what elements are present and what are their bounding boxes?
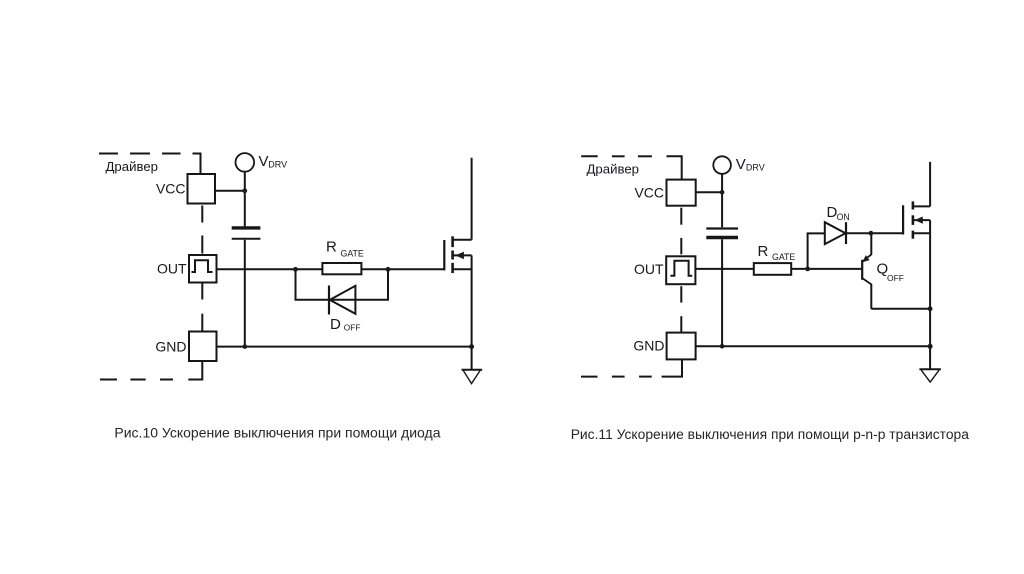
svg-text:D: D <box>330 316 341 333</box>
node: left of R_GATE (fig.10) <box>293 267 298 272</box>
wire: diode to MOSFET gate (fig.11) <box>846 232 903 234</box>
capacitor (fig.10) <box>232 228 261 239</box>
wire: VCC pin to VDRV line (fig.11) <box>696 191 722 193</box>
svg-text:R: R <box>326 238 337 255</box>
capacitor (fig.11) <box>706 229 738 238</box>
svg-text:GATE: GATE <box>341 249 364 259</box>
OUT pin box with pulse symbol (fig.10) <box>189 255 217 283</box>
svg-text:Драйвер: Драйвер <box>587 162 640 177</box>
label V_DRV (fig.11) <box>736 156 765 173</box>
MOSFET (fig.10) <box>444 158 471 347</box>
MOSFET (fig.11) <box>903 162 930 346</box>
resistor R_GATE (fig.10) <box>322 263 361 274</box>
svg-text:DRV: DRV <box>268 160 287 170</box>
node: VCC/VDRV junction (fig.11) <box>720 190 725 195</box>
node B at gate (fig.11) <box>869 231 874 236</box>
VCC pin box (fig.11) <box>667 180 696 206</box>
svg-text:ON: ON <box>837 212 850 222</box>
svg-text:OUT: OUT <box>157 261 187 277</box>
node: VCC/VDRV junction (fig.10) <box>242 188 247 193</box>
wire: VCC pin to VDRV line (fig.10) <box>215 190 245 192</box>
transistor Q_OFF (pnp) (fig.11) <box>862 233 872 309</box>
node: source/ground junction (fig.10) <box>469 344 474 349</box>
svg-text:Рис.10 Ускорение выключения пр: Рис.10 Ускорение выключения при помощи д… <box>114 425 440 441</box>
ground symbol (fig.10) <box>462 347 483 384</box>
node: cap/ground junction (fig.10) <box>243 344 248 349</box>
svg-text:R: R <box>758 243 769 260</box>
svg-text:GATE: GATE <box>772 252 795 262</box>
wire: OUT to node A (fig.11) <box>695 268 861 270</box>
resistor R_GATE (fig.11) <box>754 263 791 275</box>
label D_OFF (fig.10) <box>330 316 360 333</box>
node: cap/ground junction (fig.11) <box>720 344 725 349</box>
wire: VDRV vertical upper (fig.10) <box>244 172 246 227</box>
driver block dashed outline (fig.10) <box>99 154 202 380</box>
GND pin box (fig.11) <box>667 333 696 360</box>
node: collector/source junction (fig.11) <box>928 306 933 311</box>
wire: capacitor to ground rail (fig.11) <box>721 239 723 346</box>
svg-text:OFF: OFF <box>887 273 904 283</box>
wire: node A up to diode level (fig.11) <box>808 233 825 269</box>
GND pin box (fig.10) <box>189 332 217 362</box>
VCC pin box (fig.10) <box>188 174 216 204</box>
svg-text:V: V <box>259 153 269 170</box>
wire: VDRV vertical upper (fig.11) <box>721 174 723 227</box>
node: right of R_GATE (fig.10) <box>386 267 391 272</box>
wire: capacitor to ground rail (fig.10) <box>244 240 246 347</box>
voltage source V_DRV circle (fig.10) <box>236 153 255 172</box>
svg-text:DRV: DRV <box>746 163 765 173</box>
node A after R_GATE (fig.11) <box>805 267 810 272</box>
label R_GATE (fig.11) <box>758 243 796 262</box>
voltage source V_DRV circle (fig.11) <box>713 156 731 174</box>
diode D_ON (fig.11) <box>825 222 846 244</box>
svg-text:Драйвер: Драйвер <box>106 159 159 174</box>
diode D_OFF (fig.10) <box>329 286 355 315</box>
svg-text:GND: GND <box>155 338 186 354</box>
driver block dashed outline (fig.11) <box>581 156 682 376</box>
label R_GATE (fig.10) <box>326 238 364 258</box>
svg-text:OFF: OFF <box>344 323 361 333</box>
wire: diode parallel branch (fig.10) <box>296 269 389 299</box>
svg-text:OUT: OUT <box>634 261 664 277</box>
svg-text:V: V <box>736 156 746 173</box>
node: source/ground junction (fig.11) <box>928 344 933 349</box>
wire: OUT to MOSFET gate (fig.10) <box>217 268 445 270</box>
ground symbol (fig.11) <box>919 346 941 382</box>
ground rail wire (fig.10) <box>217 346 472 348</box>
wire: collector to source line (fig.11) <box>871 308 930 310</box>
label Q_OFF (fig.11) <box>877 261 905 284</box>
svg-text:VCC: VCC <box>634 184 664 200</box>
svg-text:VCC: VCC <box>156 181 186 197</box>
ground rail wire (fig.11) <box>696 345 931 347</box>
svg-text:Рис.11 Ускорение выключения пр: Рис.11 Ускорение выключения при помощи p… <box>571 426 970 442</box>
OUT pin box with pulse symbol (fig.11) <box>666 256 695 284</box>
label D_ON (fig.11) <box>827 204 850 222</box>
label V_DRV (fig.10) <box>259 153 288 170</box>
svg-text:GND: GND <box>633 338 664 354</box>
